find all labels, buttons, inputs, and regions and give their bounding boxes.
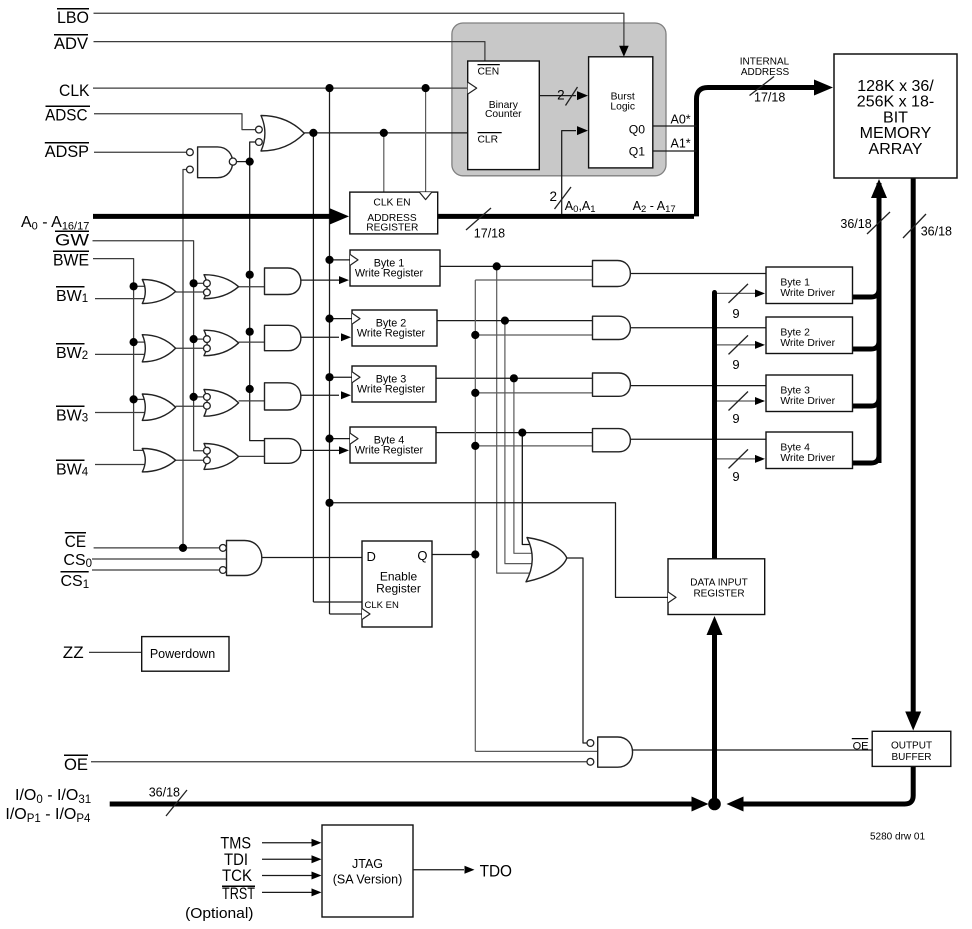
arrowhead A0,A1 into burst logic bbox=[577, 126, 588, 135]
wire byte2 write driver to memory elbow bbox=[853, 341, 880, 349]
and gate byte1 G1D write drive bbox=[593, 261, 631, 287]
wire byte1 write register clock bbox=[330, 259, 351, 261]
wire BW2 bbox=[95, 353, 148, 355]
svg-text:BUFFER: BUFFER bbox=[892, 752, 932, 763]
svg-text:2: 2 bbox=[549, 189, 557, 204]
slash byte3 9-bit bbox=[729, 392, 749, 411]
wire TMS to JTAG bbox=[262, 842, 312, 844]
bus I/O node up to data input register bbox=[712, 625, 717, 799]
wire output NAND to output buffer OE bbox=[633, 749, 872, 751]
arrowhead into data input register bbox=[707, 616, 723, 635]
burst logic box bbox=[589, 57, 653, 168]
bus write drivers to memory array vertical 36/18 bbox=[877, 183, 882, 463]
node enable register Q bbox=[471, 550, 479, 558]
svg-text:Write Driver: Write Driver bbox=[780, 338, 835, 349]
wire byte2 OR to NOR bbox=[176, 347, 204, 349]
wire register-enable vertical from clock OR gate bbox=[312, 133, 314, 602]
byte 1 write register box bbox=[350, 250, 440, 286]
svg-text:Q0: Q0 bbox=[629, 122, 645, 136]
and gate byte2 G2C write load bbox=[265, 325, 301, 350]
wire LBO to burst logic bbox=[94, 13, 624, 47]
data input register box bbox=[668, 559, 765, 615]
svg-text:CLR: CLR bbox=[478, 135, 499, 146]
arrowhead write data into memory array bbox=[871, 179, 887, 198]
wire enable register CLK EN input bbox=[313, 601, 362, 603]
slash 2 on A0,A1 bbox=[555, 187, 572, 209]
wire burst logic Q1 output A1* bbox=[653, 150, 697, 152]
or-gate byte1 G1B inverted inputs bbox=[204, 275, 239, 299]
svg-text:Powerdown: Powerdown bbox=[150, 647, 215, 661]
wire byte2 write register clock bbox=[330, 318, 353, 320]
node I/O junction bbox=[708, 798, 721, 811]
svg-text:(Optional): (Optional) bbox=[185, 905, 253, 922]
arrowhead I/O into node bbox=[692, 797, 709, 812]
and gate byte3 G3D write drive bbox=[593, 373, 631, 396]
slash output data 36/18 bbox=[903, 214, 926, 238]
node clock OR to address register CLK EN bbox=[380, 129, 388, 137]
wire enable register clock input bbox=[330, 613, 363, 615]
byte 4 write driver box bbox=[766, 432, 853, 469]
arrowhead TDO bbox=[465, 866, 475, 874]
node enable row4 bbox=[471, 442, 479, 450]
wire byte4 write-data 9-bit line bbox=[715, 458, 756, 460]
wire byte2 enable input to driver AND bbox=[475, 334, 592, 336]
node GW row1 bbox=[190, 279, 198, 287]
svg-text:CE: CE bbox=[65, 532, 86, 551]
wire byte3 OR to NOR bbox=[176, 405, 204, 407]
byte 4 write register box bbox=[350, 427, 436, 463]
arrowhead byte2 9-bit into write driver bbox=[755, 341, 765, 349]
clock triangle byte 4 write register bbox=[350, 433, 358, 444]
wire byte4 register output vertical to data OR gate bbox=[522, 433, 540, 545]
wire write-load vertical from NAND output to byte AND gates bbox=[250, 162, 265, 441]
node CLK to write clock vertical bbox=[325, 84, 333, 92]
node clock row4 bbox=[325, 435, 333, 443]
wire byte3 write driver to memory elbow bbox=[853, 398, 880, 406]
svg-text:ADV: ADV bbox=[54, 34, 89, 53]
wire byte4 driver AND output to write driver bbox=[631, 438, 767, 440]
svg-text:OE: OE bbox=[64, 755, 88, 774]
svg-text:Write Register: Write Register bbox=[355, 445, 424, 457]
svg-text:Byte 3: Byte 3 bbox=[780, 385, 810, 396]
svg-text:MEMORY: MEMORY bbox=[860, 125, 932, 142]
arrowhead 2-bit into burst logic bbox=[577, 91, 588, 100]
wire TRST to JTAG bbox=[262, 891, 312, 893]
wire byte4 AND output to write register bbox=[301, 449, 339, 451]
clock triangle address register top bbox=[419, 192, 431, 200]
svg-text:36/18: 36/18 bbox=[921, 225, 952, 239]
bus output buffer to I/O bbox=[738, 766, 913, 804]
or-gate byte3 G3B inverted inputs bbox=[204, 390, 239, 417]
arrowhead byte3 write register D input bbox=[341, 391, 351, 399]
svg-text:Write Driver: Write Driver bbox=[780, 288, 835, 299]
svg-text:ZZ: ZZ bbox=[63, 643, 84, 662]
wire NAND output up to clock OR gate input bbox=[250, 142, 256, 162]
node byte2 register output bbox=[501, 317, 509, 325]
wire byte3 write register clock bbox=[330, 376, 353, 378]
bubble U5 bottom input OE bbox=[587, 758, 594, 765]
wire GW stub row2 bbox=[194, 338, 204, 340]
svg-text:INTERNAL: INTERNAL bbox=[740, 56, 790, 67]
wire enable to output NAND middle input bbox=[475, 750, 597, 752]
wire byte1 AND output to write register bbox=[301, 279, 339, 281]
svg-text:TDO: TDO bbox=[480, 862, 512, 881]
svg-text:A0*: A0* bbox=[671, 113, 691, 127]
wire byte1 OR to NOR bbox=[176, 291, 204, 293]
arrowhead TDI bbox=[312, 855, 322, 863]
slash 17/18 internal address bbox=[750, 77, 775, 96]
wire byte2 register output vertical to data OR gate bbox=[505, 321, 540, 564]
wire ADSP to NAND gate bbox=[94, 151, 187, 153]
burst counter shaded region bbox=[452, 23, 666, 176]
node write-load row3 bbox=[246, 385, 254, 393]
clock triangle binary counter bbox=[468, 82, 477, 94]
clock triangle byte 3 write register bbox=[352, 372, 360, 383]
node GW row2 bbox=[190, 335, 198, 343]
node CLK to address register clock bbox=[422, 84, 430, 92]
wire byte2 NOR to AND bbox=[239, 341, 265, 343]
arrowhead address bus into address register bbox=[330, 208, 349, 224]
wire OE bbox=[91, 761, 587, 763]
svg-text:128K x 36/: 128K x 36/ bbox=[857, 78, 934, 95]
wire byte2 driver AND output to write driver bbox=[631, 327, 767, 329]
wire byte1 NOR to AND bbox=[239, 286, 265, 288]
and gate byte4 G4D write drive bbox=[593, 429, 631, 452]
svg-text:BWE: BWE bbox=[53, 251, 89, 270]
wire ZZ to powerdown bbox=[89, 651, 142, 653]
svg-text:REGISTER: REGISTER bbox=[366, 223, 418, 234]
svg-text:36/18: 36/18 bbox=[840, 217, 871, 231]
wire byte3 write-data 9-bit line bbox=[715, 400, 756, 402]
svg-text:9: 9 bbox=[732, 469, 739, 484]
wire GW stub row3 bbox=[194, 396, 204, 398]
output buffer box bbox=[872, 731, 951, 766]
svg-text:9: 9 bbox=[732, 357, 739, 372]
bus A0-A16/17 thick horizontal bbox=[93, 214, 337, 219]
node write-load row2 bbox=[246, 328, 254, 336]
bubble U2 input ADSP bbox=[187, 149, 194, 156]
wire enable vertical from enable register Q bbox=[474, 280, 476, 751]
wire byte4 write register output bbox=[436, 432, 593, 434]
arrowhead byte1 9-bit into write driver bbox=[755, 289, 765, 297]
wire CLK bbox=[93, 87, 468, 89]
svg-text:CLK EN: CLK EN bbox=[365, 600, 399, 611]
or-gate byte2 G2A (BWE+BW2) bbox=[142, 335, 175, 362]
svg-text:CLK EN: CLK EN bbox=[373, 197, 410, 208]
wire byte3 NOR to AND bbox=[239, 400, 265, 402]
svg-text:5280 drw 01: 5280 drw 01 bbox=[870, 832, 925, 843]
wire TCK to JTAG bbox=[262, 875, 312, 877]
wire byte3 write register output bbox=[436, 377, 593, 379]
bus I/O thick horizontal bbox=[110, 802, 696, 807]
wire byte1 write-data 9-bit line bbox=[715, 292, 756, 294]
svg-text:2: 2 bbox=[557, 87, 565, 102]
arrowhead TMS bbox=[312, 839, 322, 847]
bubble G4B input bbox=[204, 457, 211, 464]
wire byte4 write register clock bbox=[330, 438, 351, 440]
node clock to DIR branch bbox=[325, 499, 333, 507]
wire byte1 write driver to memory elbow bbox=[853, 289, 880, 297]
node GW row3 bbox=[190, 393, 198, 401]
nand gate U5 output enable bbox=[598, 737, 633, 767]
wire byte1 register output vertical to data OR gate bbox=[497, 266, 540, 573]
byte 3 write register box bbox=[352, 366, 436, 402]
bus data input register to write drivers bbox=[712, 293, 717, 559]
node ADSP NAND output bbox=[246, 158, 254, 166]
slash byte2 9-bit bbox=[729, 335, 749, 354]
bus A2-A17 from address register to internal address bbox=[438, 214, 694, 219]
node enable row3 bbox=[471, 389, 479, 397]
svg-text:Write Register: Write Register bbox=[357, 328, 426, 340]
wire byte1 driver AND output to write driver bbox=[631, 273, 767, 275]
or-gate byte2 G2B inverted inputs bbox=[204, 330, 239, 356]
bubble G4B input GW bbox=[204, 447, 211, 454]
node enable row2 bbox=[471, 331, 479, 339]
svg-text:GW: GW bbox=[55, 231, 89, 250]
clock triangle enable register bbox=[362, 609, 370, 620]
svg-text:ARRAY: ARRAY bbox=[869, 141, 923, 158]
svg-text:17/18: 17/18 bbox=[754, 91, 785, 105]
svg-text:REGISTER: REGISTER bbox=[693, 589, 744, 600]
address register box bbox=[350, 192, 438, 234]
wire BW3 bbox=[95, 412, 148, 414]
bubble G2B input bbox=[204, 345, 211, 352]
svg-text:(SA Version): (SA Version) bbox=[333, 873, 402, 887]
wire BW4 bbox=[95, 464, 148, 466]
svg-text:ADSC: ADSC bbox=[45, 106, 87, 125]
arrowhead internal address into memory array bbox=[814, 80, 833, 96]
svg-text:9: 9 bbox=[732, 411, 739, 426]
slash byte4 9-bit bbox=[729, 449, 749, 468]
bubble U1 input ADSC bbox=[256, 126, 263, 133]
node CE to ADSP NAND bbox=[179, 544, 187, 552]
wire BW1 bbox=[95, 298, 148, 300]
wire byte4 enable input to driver AND bbox=[475, 445, 592, 447]
wire BWE stub row1 bbox=[134, 285, 148, 287]
bus memory array to output buffer 36/18 bbox=[911, 178, 916, 712]
or-gate clock load U1 (ADSC/ADSP) bbox=[261, 116, 304, 152]
slash I/O 36/18 bbox=[166, 790, 187, 816]
node byte4 register output bbox=[518, 429, 526, 437]
arrowhead into output buffer bbox=[905, 712, 921, 731]
node BWE row3 bbox=[130, 395, 138, 403]
bubble G3B input GW bbox=[204, 394, 211, 401]
bubble U3 input CS1 bbox=[220, 567, 227, 574]
node byte1 register output bbox=[493, 262, 501, 270]
and gate byte3 G3C write load bbox=[265, 383, 301, 410]
arrowhead TRST bbox=[312, 888, 322, 896]
or-gate U4 data-in combine bbox=[526, 538, 567, 582]
wire binary counter to burst logic 2-bit bbox=[539, 95, 576, 97]
or-gate byte4 G4B inverted inputs bbox=[204, 444, 239, 470]
wire data OR gate output to output NAND bbox=[567, 558, 587, 743]
svg-text:D: D bbox=[367, 549, 376, 564]
svg-text:OE: OE bbox=[853, 741, 869, 753]
clock triangle byte 2 write register bbox=[352, 313, 360, 324]
node clock OR to register enable vertical bbox=[309, 129, 317, 137]
binary counter box bbox=[468, 61, 540, 170]
byte 2 write driver box bbox=[766, 317, 853, 354]
or-gate byte3 G3A (BWE+BW3) bbox=[142, 394, 175, 420]
wire A0,A1 from address bus to burst logic bbox=[562, 131, 576, 214]
and gate byte4 G4C write load bbox=[265, 439, 301, 464]
wire chip-enable NAND output to enable register D bbox=[262, 557, 362, 559]
wire burst logic Q0 output A0* bbox=[653, 125, 697, 127]
nand gate U3 chip enable (CE,CS0,CS1) bbox=[227, 541, 262, 576]
wire BWE stub row3 bbox=[134, 398, 148, 400]
bubble G2B input GW bbox=[204, 336, 211, 343]
wire byte3 AND output to write register bbox=[301, 394, 339, 396]
svg-text:17/18: 17/18 bbox=[474, 227, 505, 241]
slash write data 36/18 bbox=[867, 212, 890, 234]
svg-text:Write Register: Write Register bbox=[357, 384, 426, 396]
byte 3 write driver box bbox=[766, 375, 853, 412]
wire byte2 AND output to write register bbox=[301, 336, 339, 338]
node BWE row1 bbox=[130, 282, 138, 290]
wire byte1 enable input to driver AND bbox=[475, 279, 592, 281]
svg-text:Byte 2: Byte 2 bbox=[780, 327, 810, 338]
powerdown box bbox=[142, 637, 229, 672]
svg-text:CLK: CLK bbox=[59, 81, 90, 100]
node write-load row1 bbox=[246, 271, 254, 279]
arrowhead LBO into burst logic bbox=[619, 46, 629, 57]
enable register box bbox=[362, 541, 432, 627]
arrowhead byte3 9-bit into write driver bbox=[755, 397, 765, 405]
svg-text:Write Register: Write Register bbox=[355, 268, 424, 280]
wire clock to data input register bbox=[330, 503, 668, 598]
wire CS1 bbox=[92, 569, 219, 571]
or-gate byte1 G1A (BWE+BW1) bbox=[142, 280, 175, 304]
bubble U2 input CE bbox=[187, 166, 194, 173]
wire clock-enable drop to address register bbox=[383, 133, 385, 192]
byte 2 write register box bbox=[352, 310, 437, 346]
svg-text:Register: Register bbox=[376, 582, 421, 596]
jtag box bbox=[322, 825, 413, 917]
bubble G1B input bbox=[204, 289, 211, 296]
wire CE vertical to ADSP NAND input bbox=[183, 170, 187, 548]
nand gate U2 (ADSP/CE) bbox=[198, 147, 233, 178]
wire GW stub row1 bbox=[194, 282, 204, 284]
svg-text:256K x 18-: 256K x 18- bbox=[857, 94, 934, 111]
wire CS0 bbox=[92, 558, 227, 560]
svg-text:9: 9 bbox=[732, 306, 739, 321]
slash 17/18 on address bus bbox=[466, 208, 491, 230]
arrowhead byte1 write register D input bbox=[339, 276, 349, 284]
wire byte4 write driver to memory elbow bbox=[853, 455, 880, 463]
wire BWE with vertical to byte OR gates bbox=[93, 259, 148, 451]
wire byte2 write-data 9-bit line bbox=[715, 344, 756, 346]
wire BWE stub row2 bbox=[134, 341, 148, 343]
bubble U2 output bbox=[229, 158, 236, 165]
and gate byte2 G2D write drive bbox=[593, 316, 631, 339]
bubble U3 input CE bbox=[220, 545, 227, 552]
node clock row2 bbox=[325, 315, 333, 323]
arrowhead TCK bbox=[312, 872, 322, 880]
bubble G3B input bbox=[204, 402, 211, 409]
svg-text:Q: Q bbox=[417, 548, 427, 563]
slash byte1 9-bit bbox=[729, 284, 749, 303]
svg-text:CEN: CEN bbox=[478, 67, 500, 78]
wire clock vertical to register clock inputs bbox=[329, 88, 331, 614]
node BWE row2 bbox=[130, 338, 138, 346]
clock triangle data input register bbox=[668, 592, 676, 603]
svg-text:ADDRESS: ADDRESS bbox=[741, 67, 790, 78]
or-gate byte4 G4A (BWE+BW4) bbox=[142, 449, 175, 472]
svg-text:Logic: Logic bbox=[610, 102, 635, 113]
node clock row1 bbox=[325, 256, 333, 264]
wire byte3 register output vertical to data OR gate bbox=[514, 378, 540, 553]
wire byte4 NOR to AND bbox=[239, 455, 265, 457]
svg-text:LBO: LBO bbox=[57, 8, 89, 27]
svg-text:OUTPUT: OUTPUT bbox=[891, 741, 932, 752]
wire GW with vertical to byte gates bbox=[93, 241, 204, 451]
svg-text:Write Driver: Write Driver bbox=[780, 396, 835, 407]
arrowhead byte4 9-bit into write driver bbox=[755, 455, 765, 463]
arrowhead byte2 write register D input bbox=[341, 333, 351, 341]
wire ADSP NAND output bbox=[236, 161, 249, 163]
bus internal address vertical and into memory array bbox=[697, 88, 816, 217]
bubble U5 top input bbox=[587, 740, 594, 747]
svg-text:ADSP: ADSP bbox=[45, 142, 89, 161]
wire TDO from JTAG bbox=[413, 869, 464, 871]
wire byte4 OR to NOR bbox=[176, 459, 204, 461]
node clock row3 bbox=[325, 373, 333, 381]
wire enable register Q output bbox=[432, 554, 475, 556]
svg-text:A1*: A1* bbox=[671, 137, 691, 151]
svg-text:DATA INPUT: DATA INPUT bbox=[690, 578, 747, 589]
wire TDI to JTAG bbox=[262, 858, 312, 860]
svg-text:Q1: Q1 bbox=[629, 144, 645, 158]
and gate byte1 G1C write load bbox=[265, 268, 301, 295]
svg-text:Write Driver: Write Driver bbox=[780, 453, 835, 464]
svg-text:JTAG: JTAG bbox=[352, 857, 383, 871]
memory array box bbox=[834, 54, 957, 178]
wire byte3 driver AND output to write driver bbox=[631, 385, 767, 387]
svg-text:BIT: BIT bbox=[883, 109, 908, 126]
svg-text:Byte 1: Byte 1 bbox=[780, 277, 810, 288]
byte 1 write driver box bbox=[766, 267, 853, 304]
svg-text:Byte 4: Byte 4 bbox=[780, 442, 810, 453]
arrowhead byte4 write register D input bbox=[339, 446, 349, 454]
bubble U1 input ADSP bbox=[256, 139, 263, 146]
svg-text:36/18: 36/18 bbox=[149, 786, 180, 800]
wire byte1 write register output bbox=[440, 265, 593, 267]
svg-text:Counter: Counter bbox=[485, 109, 522, 120]
wire clock drop to address register bbox=[425, 88, 427, 192]
node byte3 register output bbox=[510, 374, 518, 382]
arrowhead output data into I/O node bbox=[727, 797, 744, 812]
svg-text:TCK: TCK bbox=[222, 866, 253, 885]
wire ADSC to clock OR gate bbox=[94, 114, 256, 130]
slash 2 on counter to burst bbox=[566, 87, 578, 106]
bubble G1B input GW bbox=[204, 280, 211, 287]
wire ADV to binary counter CEN bbox=[94, 42, 485, 61]
clock triangle byte 1 write register bbox=[350, 254, 358, 265]
wire byte2 write register output bbox=[437, 320, 593, 322]
wire byte3 enable input to driver AND bbox=[475, 392, 592, 394]
wire CE bbox=[94, 547, 220, 549]
wire clock OR output to binary counter CLR bbox=[304, 132, 467, 134]
